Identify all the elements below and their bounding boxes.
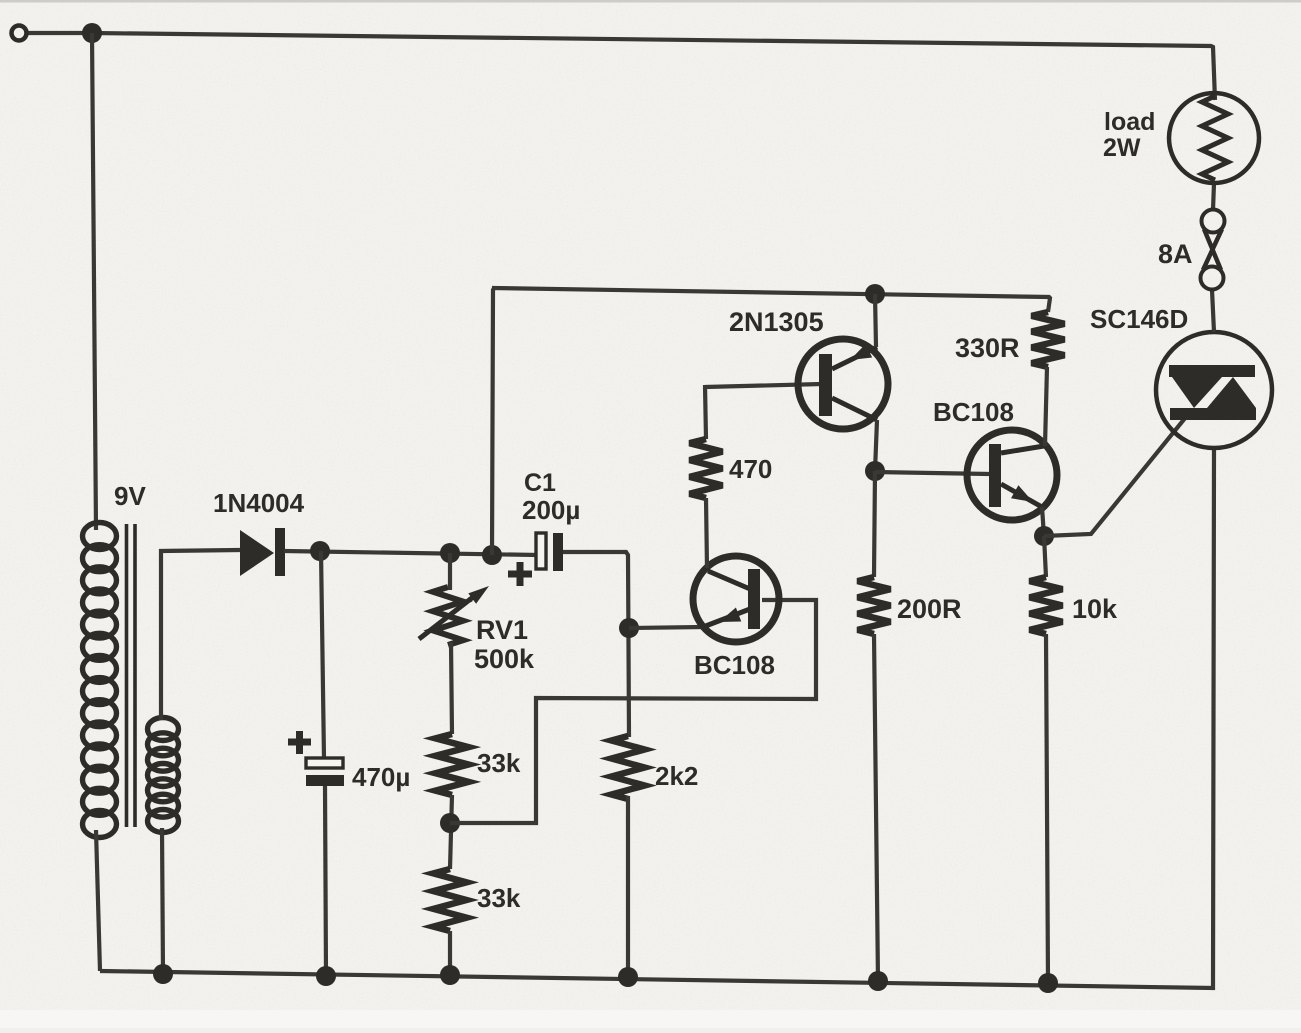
junction rail / 200R [868, 971, 888, 991]
wire 2N1305 emitter up to bus [875, 294, 876, 347]
wire RV1 to 33k [451, 642, 452, 734]
resistor 470 [690, 439, 723, 498]
junction BC108 emitter / 10k / gate [1034, 526, 1054, 546]
load lamp 2W (resistor in circle) [1169, 93, 1259, 183]
terminal input (open circle) [12, 26, 27, 41]
svg-text:2W: 2W [1103, 134, 1141, 162]
transistor Q3 BC108 (NPN) [967, 430, 1057, 520]
junction diode output [310, 541, 330, 561]
wire 200R to rail [874, 634, 878, 981]
junction 2N1305 collector / 200R / BC108 base [865, 461, 885, 481]
wire C1 right to 2k2 branch corner [563, 552, 629, 737]
svg-text:33k: 33k [477, 748, 521, 778]
junction rail / 2k2 [618, 967, 638, 987]
transistor Q1 BC108 (NPN, mirrored) [693, 556, 779, 642]
junction rail / secondary [153, 964, 173, 984]
svg-text:200R: 200R [897, 594, 962, 624]
svg-text:200µ: 200µ [522, 495, 580, 525]
resistor 10k [1030, 577, 1063, 634]
wire secondary top lead [161, 550, 240, 720]
wire bottom rail [100, 448, 1214, 988]
transformer T1 primary winding [83, 523, 117, 838]
wire secondary bottom lead [162, 828, 163, 974]
svg-text:33k: 33k [477, 883, 521, 913]
wire 470 to BC108 collector [706, 498, 707, 568]
transformer T1 secondary winding [148, 718, 179, 833]
svg-text:10k: 10k [1072, 594, 1118, 624]
wire 10k to rail [1046, 634, 1048, 983]
triac SC146D [1156, 332, 1272, 448]
resistor 33k upper [436, 734, 469, 795]
potentiometer RV1 500k (zigzag) [433, 587, 463, 645]
wire 2k2 to rail [626, 796, 630, 977]
svg-text:330R: 330R [955, 333, 1020, 363]
svg-text:470µ: 470µ [352, 762, 410, 792]
junction rail / 33k [440, 965, 460, 985]
resistor 330R [1032, 312, 1065, 367]
junction RV1 top [440, 543, 460, 563]
wire left vertical down to transformer primary [92, 33, 96, 530]
wire 33k upper to divider junction [450, 795, 452, 869]
wire gate of triac [1044, 412, 1190, 536]
wire divider tap to BC108 base (runs under 2k2 branch) [450, 600, 816, 823]
transistor Q2 2N1305 (PNP) [798, 339, 888, 429]
fuse 8A [1201, 183, 1225, 290]
resistor 2k2 [612, 736, 645, 799]
wire junction to BC108 base [875, 472, 990, 474]
wire 33k lower to rail [448, 931, 452, 975]
capacitor C1 200u [536, 533, 563, 571]
junction top-left [82, 23, 102, 43]
wire 470u capacitor bottom lead [325, 786, 326, 976]
wire junction to 200R [874, 471, 875, 577]
transformer T1 core [127, 524, 136, 827]
wire junction to 10k [1044, 536, 1046, 577]
svg-text:500k: 500k [474, 644, 535, 674]
polarity plus sign of C1 [508, 562, 532, 586]
polarity plus sign of 470u [288, 731, 311, 754]
capacitor 470u electrolytic [306, 758, 344, 786]
svg-text:2N1305: 2N1305 [729, 307, 824, 337]
wire primary bottom lead [96, 830, 100, 971]
wire from diode row up to upper bus [492, 288, 494, 555]
resistor 33k lower [434, 869, 467, 931]
wire BC108 emitter to junction [629, 627, 703, 628]
junction rail / 470u [316, 966, 336, 986]
svg-text:BC108: BC108 [694, 650, 775, 680]
svg-text:load: load [1104, 108, 1155, 136]
svg-text:9V: 9V [114, 481, 146, 511]
junction C1 left / upper-bus tap [482, 545, 502, 565]
wire RV1 top lead [448, 553, 452, 590]
arrow of RV1 [419, 586, 489, 639]
svg-text:C1: C1 [524, 469, 556, 497]
wire diode row (node A rectified supply) [284, 551, 538, 555]
resistor 200R [858, 577, 891, 634]
junction upper bus / 2N1305 emitter [865, 284, 885, 304]
wire 470u capacitor top lead [321, 551, 324, 759]
svg-text:BC108: BC108 [933, 397, 1014, 427]
junction divider tap [440, 813, 460, 833]
svg-text:SC146D: SC146D [1090, 304, 1188, 334]
wire 330R to BC108 collector [1045, 367, 1047, 446]
wire upper bus [492, 288, 1050, 312]
wire BC108 emitter down to junction [1042, 507, 1044, 536]
svg-text:RV1: RV1 [476, 615, 528, 645]
svg-text:2k2: 2k2 [655, 761, 698, 791]
junction BC108 emitter / 2k2 [619, 618, 639, 638]
wire 2N1305 base lead [705, 384, 822, 387]
wire fuse to triac MT2 [1212, 290, 1214, 332]
svg-text:470: 470 [729, 454, 772, 484]
wire top bus from input terminal to top-right corner [27, 33, 1215, 100]
svg-text:1N4004: 1N4004 [213, 488, 305, 518]
diode D1 1N4004 [240, 528, 285, 576]
svg-text:8A: 8A [1158, 239, 1193, 269]
junction rail / 10k [1038, 973, 1058, 993]
wire corner down to 470 [705, 385, 706, 439]
wire 2N1305 collector down to junction [875, 420, 877, 471]
